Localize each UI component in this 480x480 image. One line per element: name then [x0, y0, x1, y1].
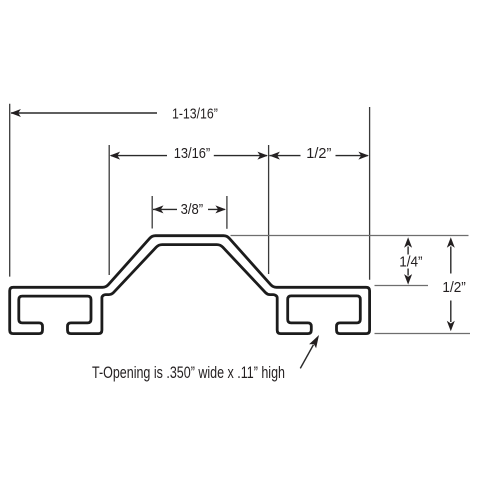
dimension 13/16 left shaft — [111, 155, 167, 157]
extrusion profile outline — [10, 236, 370, 334]
dimension 1/4 up arrowhead — [404, 237, 412, 248]
dimension 3/8 right shaft — [208, 208, 225, 210]
svg-text:13/16”: 13/16” — [174, 145, 211, 162]
dimension 3/8 left shaft — [153, 208, 177, 210]
dimension 1/2 top right shaft — [336, 155, 368, 157]
dimension 1/2 top left shaft — [269, 155, 300, 157]
dimension 3/8 right arrowhead — [215, 205, 226, 213]
extension line left outer — [9, 104, 11, 277]
dimension 3/8 left arrowhead — [153, 205, 164, 213]
leader line to T-opening — [300, 345, 313, 369]
dimension 1/4 lower shaft — [407, 269, 409, 276]
svg-text:1-13/16”: 1-13/16” — [172, 106, 218, 123]
dimension 1-13/16 left arrowhead — [10, 109, 21, 117]
extension line 13/16 left — [108, 145, 110, 275]
svg-text:3/8”: 3/8” — [181, 201, 204, 218]
dimension 13/16 right arrowhead — [257, 152, 268, 160]
dimension 1-13/16 shaft — [11, 112, 157, 114]
dimension 1/2 right upper shaft — [450, 247, 452, 274]
svg-text:T-Opening is .350” wide x .11”: T-Opening is .350” wide x .11” high — [92, 364, 285, 382]
svg-text:1/2”: 1/2” — [442, 279, 465, 296]
leader arrowhead — [309, 335, 319, 348]
dimension 1/2 top left arrowhead — [269, 152, 280, 160]
dimension 13/16 right shaft — [214, 155, 267, 157]
extension line base bottom right (gray) — [375, 333, 471, 335]
extension line hat top right (gray) — [231, 235, 469, 237]
extension line base top right (gray) — [375, 285, 429, 287]
extension line right outer — [369, 107, 371, 280]
extension line middle (13/16 / 1/2) — [268, 145, 270, 274]
dimension 1/4 upper shaft — [407, 247, 409, 255]
extension line 3/8 right — [226, 196, 228, 229]
dimension 13/16 left arrowhead — [110, 152, 121, 160]
dimension 1/4 down arrowhead — [404, 274, 412, 285]
dimension 1/2 right lower shaft — [450, 301, 452, 323]
extension line 3/8 left — [151, 196, 153, 229]
dimension 1/2 top right arrowhead — [358, 152, 369, 160]
svg-text:1/2”: 1/2” — [306, 145, 331, 162]
svg-text:1/4”: 1/4” — [399, 253, 422, 270]
dimension 1/2 right up arrowhead — [447, 237, 455, 248]
dimension 1/2 right down arrowhead — [447, 321, 455, 332]
